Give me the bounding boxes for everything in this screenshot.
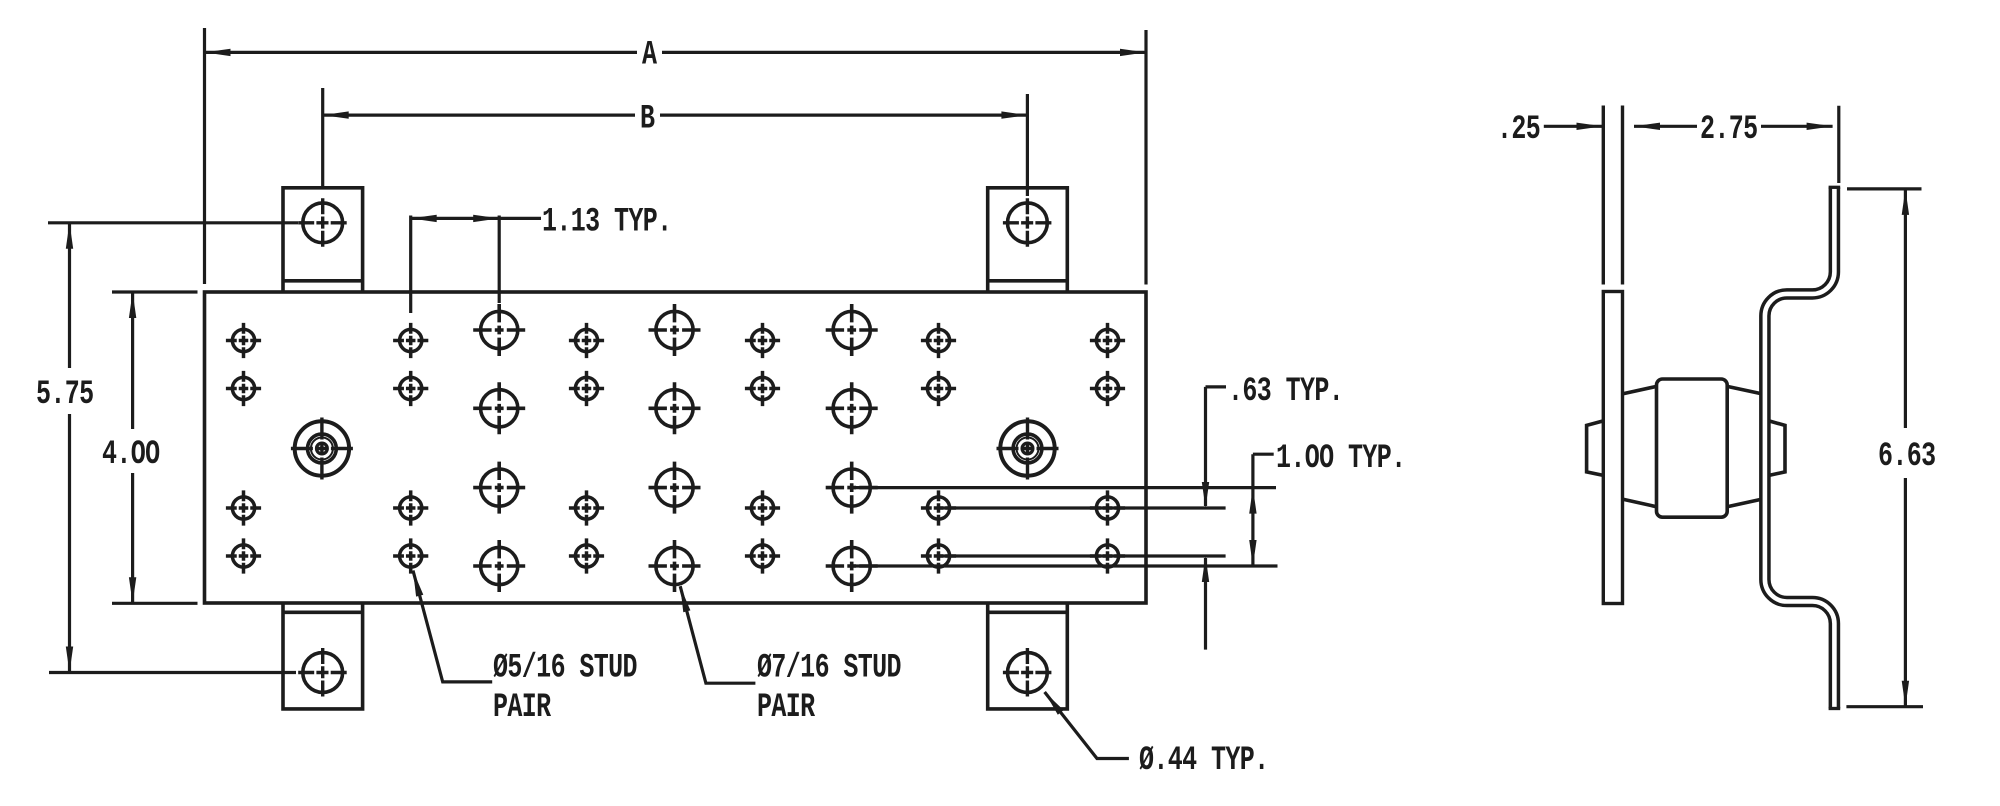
5/16 stud S4 — [745, 323, 780, 358]
dim B line right segment — [660, 113, 1027, 116]
bottom-left mounting tab — [283, 603, 363, 709]
5/16 stud S23 — [921, 538, 956, 573]
dim 1.00 down arrow — [1249, 540, 1256, 566]
7/16 stud L3 — [826, 304, 878, 356]
dim 1.13 right extension line — [498, 216, 501, 304]
7/16 stud L2 — [649, 304, 701, 356]
dim 1.13 line — [411, 217, 541, 220]
5/16 stud S24 — [1090, 538, 1125, 573]
dim 6.63 line upper segment — [1904, 189, 1907, 428]
right stud end nub — [1769, 421, 1785, 476]
top-left mounting tab — [283, 188, 363, 292]
5/16 stud S18 — [1090, 490, 1125, 525]
extension line from lower 5/16 stud row — [939, 554, 1226, 557]
dim 6.63 bottom arrow — [1902, 681, 1909, 707]
dim 6.63 line lower segment — [1904, 478, 1907, 707]
7/16 stud L11 — [649, 540, 701, 592]
extension line from upper 7/16 stud row — [852, 486, 1276, 489]
dim .25 arrow — [1577, 123, 1603, 130]
insulator right frustum bottom edge — [1727, 499, 1761, 506]
left stud end nub — [1587, 421, 1604, 476]
dim .63 down arrow — [1202, 482, 1209, 508]
leader line to 7/16 stud — [680, 586, 755, 683]
Z-bracket top end cap — [1829, 186, 1841, 189]
5/16 stud S21 — [569, 538, 604, 573]
5/16 stud S6 — [1090, 323, 1125, 358]
svg-text:1.OO TYP.: 1.OO TYP. — [1276, 440, 1406, 479]
leader line to tab hole .44 — [1045, 692, 1129, 759]
terminal plate body outline — [205, 292, 1147, 603]
dim 5.75 line upper segment — [68, 223, 71, 368]
5/16 stud S16 — [745, 490, 780, 525]
7/16 stud L12 — [826, 540, 878, 592]
dim 1.00 leader hook — [1253, 453, 1274, 456]
bottom-right mounting tab — [988, 603, 1068, 709]
dim 4.00 top extension line — [112, 290, 198, 293]
svg-text:A: A — [642, 36, 658, 75]
dim 1.00 up arrow — [1249, 488, 1256, 514]
5/16 stud S14 — [393, 490, 428, 525]
dim B left extension line — [321, 88, 324, 188]
dim 2.75 right arrow — [1807, 123, 1833, 130]
7/16 stud L1 — [473, 304, 525, 356]
7/16 stud L9 — [826, 462, 878, 514]
Z-bracket bottom end cap — [1829, 707, 1841, 710]
dim .63 leader vertical lower — [1204, 558, 1207, 650]
dim 6.63 bottom extension line — [1846, 705, 1923, 708]
5/16 stud S1 — [226, 323, 261, 358]
dim B right arrow — [1001, 111, 1027, 118]
dim B line left segment — [323, 113, 635, 116]
5/16 stud S7 — [226, 371, 261, 406]
top-right tab hole — [1003, 198, 1052, 247]
dim .63 leader hook — [1206, 385, 1227, 388]
dim A left arrow — [205, 49, 231, 56]
7/16 stud L8 — [649, 462, 701, 514]
dim A right extension line — [1144, 30, 1147, 285]
5/16 stud S2 — [393, 323, 428, 358]
top-left tab hole — [298, 198, 347, 247]
side view plate upper segment left line — [1602, 106, 1605, 285]
bottom-left tab hole — [298, 648, 347, 697]
5/16 stud S22 — [745, 538, 780, 573]
svg-text:PAIR: PAIR — [493, 688, 552, 727]
insulator left frustum top edge — [1623, 386, 1657, 393]
dim 1.13 right arrow — [473, 215, 499, 222]
top-right mounting tab — [988, 188, 1068, 292]
bottom-right tab hole — [1003, 648, 1052, 697]
dim 6.63 top arrow — [1902, 189, 1909, 215]
svg-text:5.75: 5.75 — [36, 376, 94, 415]
dim A line left segment — [205, 51, 638, 54]
svg-text:Ø.44 TYP.: Ø.44 TYP. — [1139, 742, 1269, 781]
dim .63 leader vertical upper — [1204, 387, 1207, 506]
Z-bracket side view — [1765, 187, 1835, 708]
dim 1.00 leader vertical — [1251, 454, 1254, 566]
dim 6.63 top extension line — [1847, 187, 1922, 190]
svg-text:B: B — [640, 100, 655, 139]
dim 4.00 bottom arrow — [129, 577, 136, 603]
leader arrow to 5/16 stud — [413, 571, 423, 597]
svg-text:.63 TYP.: .63 TYP. — [1228, 373, 1343, 412]
svg-text:Ø5/16 STUD: Ø5/16 STUD — [493, 649, 637, 688]
5/16 stud S13 — [226, 490, 261, 525]
dim 1.13 left arrow — [411, 215, 437, 222]
5/16 stud S17 — [921, 490, 956, 525]
dim 2.75 left arrow — [1634, 123, 1660, 130]
dim 5.75 top extension line — [48, 221, 298, 224]
dim 4.00 line upper segment — [131, 292, 134, 429]
dim B right extension line — [1026, 94, 1029, 196]
7/16 stud L6 — [826, 382, 878, 434]
svg-text:.25: .25 — [1497, 111, 1540, 150]
svg-text:2.75: 2.75 — [1700, 111, 1758, 150]
7/16 stud L4 — [473, 382, 525, 434]
5/16 stud S15 — [569, 490, 604, 525]
5/16 stud S5 — [921, 323, 956, 358]
5/16 stud S10 — [745, 371, 780, 406]
dim 5.75 bottom extension line — [49, 671, 296, 674]
7/16 stud L7 — [473, 462, 525, 514]
leader line to 5/16 stud — [413, 571, 492, 682]
dim 4.00 bottom extension line — [112, 602, 198, 605]
svg-text:PAIR: PAIR — [757, 688, 816, 727]
dim 2.75 line right segment — [1761, 125, 1833, 128]
side view plate upper segment right line — [1621, 106, 1624, 285]
svg-text:Ø7/16 STUD: Ø7/16 STUD — [757, 649, 901, 688]
leader arrow to tab hole — [1045, 692, 1064, 715]
5/16 stud S3 — [569, 323, 604, 358]
5/16 stud S11 — [921, 371, 956, 406]
5/16 stud S8 — [393, 371, 428, 406]
dim A line right segment — [662, 51, 1146, 54]
svg-text:1.13 TYP.: 1.13 TYP. — [542, 203, 672, 242]
extension line from upper 5/16 stud row — [939, 506, 1226, 509]
side view plate lower segment — [1603, 292, 1622, 604]
5/16 stud S12 — [1090, 371, 1125, 406]
dim 2.75 line left segment — [1634, 125, 1697, 128]
right center mounting hole — [997, 418, 1059, 480]
7/16 stud L10 — [473, 540, 525, 592]
dim .63 up arrow — [1202, 556, 1209, 582]
insulator right frustum top edge — [1727, 386, 1761, 393]
dim 1.13 left extension line — [409, 216, 412, 314]
left center mounting hole — [291, 418, 353, 480]
5/16 stud S9 — [569, 371, 604, 406]
5/16 stud S19 — [226, 538, 261, 573]
dim 2.75 right extension line — [1837, 106, 1840, 183]
svg-text:4.OO: 4.OO — [102, 436, 160, 475]
5/16 stud S20 — [393, 538, 428, 573]
leader arrow to 7/16 stud — [680, 586, 690, 612]
dim 5.75 bottom arrow — [66, 647, 73, 673]
dim 5.75 line lower segment — [68, 414, 71, 673]
insulator center barrel — [1657, 379, 1728, 517]
insulator left frustum bottom edge — [1623, 499, 1657, 506]
dim 4.00 line lower segment — [131, 473, 134, 603]
dim A right arrow — [1120, 49, 1146, 56]
dim A left extension line — [203, 28, 206, 284]
svg-text:6.63: 6.63 — [1878, 437, 1936, 476]
7/16 stud L5 — [649, 382, 701, 434]
dim 4.00 top arrow — [129, 292, 136, 318]
dim .25 line — [1544, 125, 1603, 128]
dim 5.75 top arrow — [66, 223, 73, 249]
extension line from lower 7/16 stud row — [852, 564, 1278, 567]
dim B left arrow — [323, 111, 349, 118]
